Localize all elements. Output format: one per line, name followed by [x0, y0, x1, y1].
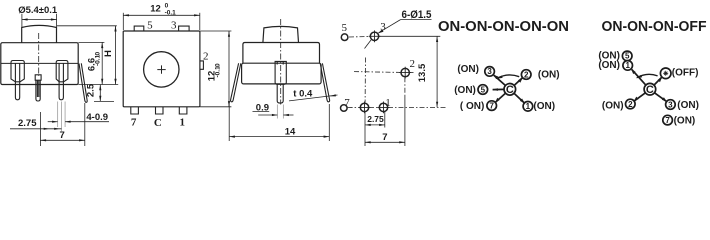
top view: label 3 — [171, 20, 177, 32]
diagram 1: label (ON) of 1 — [533, 101, 555, 112]
diagram 1: label (ON) of 3 — [457, 64, 479, 75]
dim 7 label (side view) — [60, 130, 65, 141]
svg-text:14: 14 — [285, 126, 296, 137]
top view: label C — [154, 117, 162, 129]
diagram 1: label (ON) of 5 — [454, 85, 476, 96]
dim H extension line — [57, 25, 117, 27]
top view: label 1 — [180, 117, 186, 129]
svg-text:2.75: 2.75 — [18, 118, 37, 129]
dim 2.5 dimension line — [94, 85, 114, 102]
side view: right pin leg — [59, 63, 63, 99]
diagram 1: position 5 circled — [478, 85, 488, 95]
dim H arrowheads — [114, 26, 116, 85]
svg-text:2: 2 — [524, 70, 529, 79]
top view: rotary actuator circle — [144, 52, 179, 87]
dim 2.75 extension line (centerline) — [39, 112, 41, 146]
top view: bottom tab 1 — [179, 107, 187, 114]
diagram 2: position 2 circled — [626, 99, 636, 109]
svg-text:7: 7 — [489, 101, 494, 110]
dim 12 top arrowheads — [123, 14, 200, 16]
dim 6.6 extension line — [78, 41, 104, 43]
top view: center cross — [157, 65, 165, 73]
dim 12 right label with tolerance — [207, 63, 222, 81]
svg-text:1: 1 — [625, 61, 630, 70]
footprint: centerline bottom row — [348, 106, 447, 108]
footprint: centerline pad2 horizontal — [354, 72, 414, 73]
side view: bent side pin — [79, 63, 87, 102]
diagram 1: position 1 circled — [523, 102, 533, 112]
dim Ø5.4±0.1 arrowheads — [22, 18, 57, 20]
front view: right bent pin — [320, 63, 329, 102]
side view: center pin leg — [36, 80, 40, 101]
footprint: pad 7 — [341, 105, 348, 112]
svg-text:(ON): (ON) — [457, 64, 479, 75]
dim 7 footprint label — [382, 132, 387, 143]
diagram 2: link C to 2 — [634, 93, 646, 102]
front view: center pin leg — [277, 61, 283, 103]
diagram 1: position 3 circled — [485, 67, 495, 77]
footprint: label 1 — [385, 97, 391, 109]
dim 14 dimension line — [229, 136, 329, 138]
body bottom extension line — [78, 84, 118, 86]
side view: center pin base box — [35, 75, 41, 80]
side view: body — [1, 43, 78, 85]
dim 0.9 gray extension lines — [277, 105, 283, 119]
svg-text:(ON): (ON) — [533, 101, 555, 112]
diagram 1: link C to 3 — [493, 75, 505, 86]
dim 2.75 footprint dimension line — [365, 124, 385, 126]
dim 0.9 arrowheads — [272, 114, 289, 116]
dim 12 top dimension line — [123, 14, 200, 16]
svg-text:3: 3 — [171, 20, 177, 32]
diagram 2: label (ON) of 7 — [674, 116, 696, 127]
svg-text:(OFF): (OFF) — [672, 68, 699, 79]
footprint: pad 1 with cross — [378, 102, 390, 114]
top view: label 2 — [203, 51, 209, 63]
dim 14 arrowheads — [229, 136, 329, 138]
dim 13.5 label — [417, 63, 428, 82]
dim 14 extension lines — [229, 104, 329, 141]
dim 6.6 label with tolerance — [87, 52, 102, 72]
svg-text:( ON): ( ON) — [460, 101, 484, 112]
svg-text:(ON): (ON) — [602, 101, 624, 112]
svg-text:7: 7 — [60, 130, 65, 141]
dim H label — [103, 50, 114, 57]
svg-text:3: 3 — [668, 100, 673, 109]
front view: button cap — [263, 26, 299, 42]
svg-text:ON-ON-ON-ON-ON: ON-ON-ON-ON-ON — [438, 19, 569, 35]
dim H dimension line — [115, 26, 117, 85]
front view: left bent pin — [231, 63, 241, 102]
front view: centerline — [280, 19, 282, 105]
dim 0.9 label and underline — [256, 103, 269, 114]
top view: bottom tab 7 — [131, 107, 139, 114]
dim t0.4 arrowhead — [330, 94, 336, 96]
top view: terminal bump 3 — [179, 26, 190, 31]
dim 12 top extension lines — [123, 13, 200, 30]
svg-text:12: 12 — [150, 4, 161, 15]
diagram 1: common C circled — [504, 84, 516, 97]
svg-text:5: 5 — [342, 22, 348, 34]
svg-text:-0.1: -0.1 — [165, 9, 177, 16]
footprint: pad 5 — [341, 34, 348, 41]
label 6-Ø1.5 with underline — [402, 9, 432, 21]
footprint: label 7 — [344, 97, 350, 109]
dim 7 footprint dimension line — [365, 141, 405, 143]
diagram 2: label (ON) of 1 — [598, 60, 620, 71]
diagram 2: position 1 circled — [623, 61, 633, 71]
dim 2.5 arrowheads — [99, 85, 101, 102]
dim 2.75 dimension line — [10, 128, 62, 130]
svg-text:ON-ON-ON-OFF: ON-ON-ON-OFF — [602, 19, 707, 35]
dim 13.5 extension line top — [379, 35, 440, 37]
diagram 1 title ON-ON-ON-ON-ON — [438, 19, 569, 35]
footprint: pad 2 with cross — [399, 67, 411, 79]
footprint: pad C with cross — [359, 102, 371, 114]
svg-text:2.5: 2.5 — [86, 83, 97, 97]
svg-text:6-Ø1.5: 6-Ø1.5 — [402, 9, 432, 21]
svg-text:5: 5 — [625, 52, 630, 61]
svg-text:C: C — [506, 84, 514, 96]
top view: label 5 — [147, 20, 153, 32]
dim t0.4 label — [293, 88, 313, 99]
diagram 2: position 3 circled — [666, 100, 676, 110]
svg-text:4-0.9: 4-0.9 — [86, 112, 108, 123]
dim 2.75 footprint label — [367, 114, 384, 124]
dim 2.75 arrowheads — [44, 128, 60, 130]
svg-text:1: 1 — [526, 102, 531, 111]
diagram 2: label (ON) of 3 — [677, 100, 699, 111]
top view: bottom tab C — [156, 107, 164, 114]
svg-text:1: 1 — [180, 117, 186, 129]
side view: left pin leg — [15, 63, 19, 99]
svg-text:Ø5.4±0.1: Ø5.4±0.1 — [18, 5, 58, 16]
diagram 2: link C to 3 — [655, 93, 667, 102]
top view: right side tab 2 — [200, 61, 204, 69]
svg-text:(ON): (ON) — [598, 60, 620, 71]
svg-text:(ON): (ON) — [677, 100, 699, 111]
footprint: label 5 — [342, 22, 348, 34]
dim 0.9 dimension line — [258, 114, 293, 116]
diagram 2: position OFF circled star — [660, 68, 671, 79]
side view: right contact plate — [56, 61, 68, 82]
dim Ø5.4±0.1 label — [18, 5, 58, 16]
diagram 1: rotation arc — [497, 75, 520, 79]
dim 12 top label with tolerance — [150, 3, 176, 17]
diagram 2: position 5 circled — [622, 51, 632, 61]
svg-text:C: C — [646, 84, 654, 96]
dim 4-0.9 arrowheads — [52, 121, 71, 123]
diagram 2: label (OFF) — [672, 68, 699, 79]
dim 13.5 dimension line — [436, 36, 438, 107]
dim 4-0.9 label — [86, 112, 108, 123]
side view: button cap — [22, 25, 57, 42]
dim 4-0.9 dimension line — [48, 121, 109, 123]
svg-text:-0.1: -0.1 — [94, 54, 101, 66]
dim 12 right arrowheads — [228, 31, 230, 107]
dim 4-0.9 gray extension lines — [58, 102, 66, 132]
footprint: centerline pad C vertical — [364, 58, 366, 103]
diagram 2: label (ON) of 5 — [598, 50, 620, 61]
svg-text:2.75: 2.75 — [367, 114, 384, 124]
dim 7 footprint arrowheads — [365, 141, 405, 143]
front view: metal frame band — [242, 63, 322, 84]
diagram 2 title ON-ON-ON-OFF — [602, 19, 707, 35]
side view: internal base line — [1, 62, 78, 64]
footprint: label 3 — [380, 21, 386, 33]
svg-text:(ON): (ON) — [454, 85, 476, 96]
side view: left contact plate — [11, 61, 24, 82]
dim 6.6 arrowheads — [101, 42, 103, 84]
front view: upper body — [243, 43, 320, 64]
dim 2.75 footprint extension lines — [365, 112, 385, 146]
diagram 1: link C to 5 — [492, 88, 503, 91]
diagram 2: rotation arc — [636, 74, 658, 78]
diagram 2: link C to 1 — [631, 69, 646, 85]
diagram 1: label ( ON) of 7 — [460, 101, 484, 112]
dim 7 dimension line (side view) — [40, 103, 84, 146]
footprint: label 2 — [410, 58, 416, 70]
dim 2.75 label — [18, 118, 37, 129]
svg-text:7: 7 — [665, 116, 670, 125]
footprint: pad2 extension line vertical — [404, 77, 406, 96]
svg-text:5: 5 — [481, 85, 486, 94]
diagram 1: link C to 7 — [495, 93, 506, 103]
diagram 1: link C to 1 — [514, 93, 525, 103]
label 6-Ø1.5 leader line — [365, 20, 401, 49]
dim 2.5 label — [86, 83, 97, 97]
svg-text:7: 7 — [131, 117, 137, 129]
dim Ø5.4±0.1 extension lines — [22, 14, 57, 28]
svg-text:7: 7 — [382, 132, 387, 143]
footprint: centerline pads 5-3 — [349, 36, 370, 39]
diagram 2: link C to OFF — [654, 77, 662, 85]
side view: centerline — [38, 33, 40, 76]
dim 7 arrowheads (side view) — [40, 139, 84, 141]
dim 12 right extension lines — [200, 31, 231, 107]
diagram 1: label (ON) of 2 — [538, 69, 560, 80]
diagram 1: link C to 2 — [514, 77, 523, 85]
svg-text:2: 2 — [628, 100, 633, 109]
svg-text:H: H — [103, 50, 114, 57]
dim 12 right dimension line — [228, 31, 230, 107]
dim 2.75 footprint arrowheads — [365, 124, 385, 126]
dim Ø5.4±0.1 dimension line — [22, 19, 57, 21]
diagram 2: label (ON) of 2 — [602, 101, 624, 112]
svg-text:7: 7 — [344, 97, 350, 109]
svg-text:13.5: 13.5 — [417, 63, 428, 82]
top view: label 7 — [131, 117, 137, 129]
dim 13.5 arrowheads — [436, 36, 438, 107]
dim t0.4 leader line — [289, 95, 338, 101]
svg-text:(ON): (ON) — [674, 116, 696, 127]
top view: body — [123, 31, 200, 107]
svg-text:2: 2 — [410, 58, 416, 70]
svg-text:C: C — [154, 117, 162, 129]
footprint: pad 3 with cross — [369, 30, 381, 42]
dim 6.6 dimension line — [101, 42, 103, 84]
svg-text:t 0.4: t 0.4 — [293, 88, 313, 99]
diagram 2: position 7 circled — [663, 115, 673, 125]
diagram 2: common C circled — [644, 83, 656, 96]
diagram 1: position 7 circled — [487, 101, 497, 111]
dim 14 label — [285, 126, 296, 137]
diagram 1: position 2 circled — [521, 70, 531, 80]
svg-text:3: 3 — [487, 67, 492, 76]
label 6-Ø1.5 leader arrowhead — [378, 29, 384, 33]
svg-text:(ON): (ON) — [538, 69, 560, 80]
svg-text:2: 2 — [203, 51, 209, 63]
svg-text:5: 5 — [147, 20, 153, 32]
top view: terminal bump 5 — [134, 26, 144, 31]
front view: center pin plate — [275, 61, 286, 84]
svg-text:-0.1: -0.1 — [214, 66, 221, 78]
